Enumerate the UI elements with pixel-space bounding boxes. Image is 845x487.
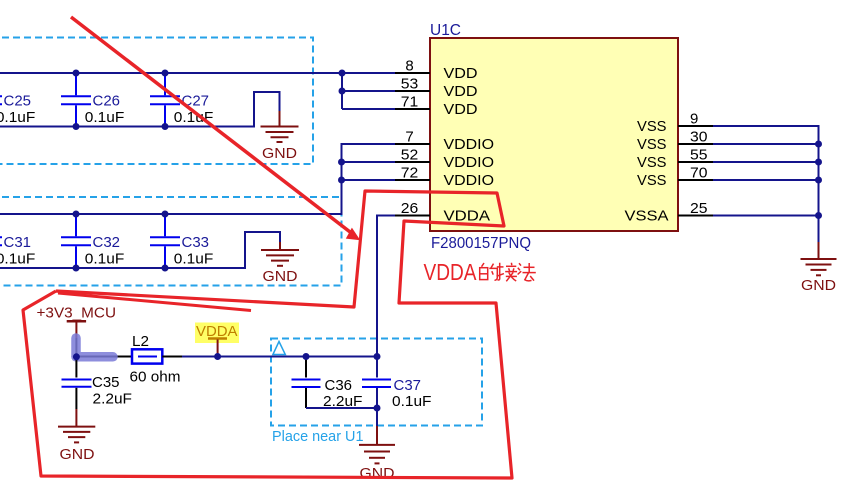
red annotation stray stroke — [58, 293, 251, 311]
svg-text:71: 71 — [401, 94, 419, 111]
wire VDDIO bank top rail — [0, 144, 395, 214]
triangle marker — [273, 342, 285, 355]
wire C36 bottom to C37 — [306, 407, 377, 409]
svg-text:30: 30 — [690, 129, 708, 146]
capacitor C36 — [305, 357, 307, 378]
ground GND right — [801, 242, 837, 275]
ground GND under C35 — [58, 409, 95, 442]
inductor L2 — [132, 349, 162, 363]
svg-text:52: 52 — [401, 147, 419, 164]
pin 71 VDD stub — [395, 108, 430, 110]
svg-text:VDD: VDD — [444, 83, 478, 100]
svg-text:9: 9 — [690, 111, 698, 128]
svg-text:GND: GND — [60, 446, 95, 463]
svg-text:0.1uF: 0.1uF — [174, 251, 214, 268]
svg-text:VDDA: VDDA — [424, 259, 478, 285]
svg-text:0.1uF: 0.1uF — [0, 251, 35, 268]
highlight on +3V3 wire corner — [76, 338, 113, 357]
capacitor C27 — [150, 73, 180, 127]
pin 53 VDD stub — [395, 90, 430, 92]
svg-text:25: 25 — [690, 200, 708, 217]
svg-text:C25: C25 — [4, 93, 32, 110]
pin 26 VDDA stub — [395, 215, 430, 217]
wire VDDA pin 26 — [377, 216, 395, 357]
svg-text:GND: GND — [262, 145, 297, 162]
wire VDD pin 71 — [342, 108, 395, 110]
wire VDDIO bank bottom rail — [0, 232, 280, 268]
svg-text:72: 72 — [401, 165, 419, 182]
dashed box Place near U1 — [271, 339, 482, 426]
svg-text:VDDIO: VDDIO — [444, 154, 495, 171]
capacitor C25 — [0, 73, 2, 127]
pin 8 VDD stub — [395, 72, 430, 74]
svg-text:VSS: VSS — [637, 118, 667, 135]
wire +3V3 corner to L2 — [76, 338, 132, 357]
wire VSS pin 30 — [713, 143, 819, 145]
pin 30 VSS stub — [678, 143, 713, 145]
power stub +3V3_MCU — [75, 321, 77, 338]
wire VSS pin 70 — [713, 179, 819, 181]
svg-text:2.2uF: 2.2uF — [93, 391, 133, 408]
svg-text:VDDIO: VDDIO — [444, 136, 495, 153]
pin 70 VSS stub — [678, 179, 713, 181]
pin 52 VDDIO stub — [395, 161, 430, 163]
wire VDDIO pin 72 — [342, 179, 396, 181]
dashed box around VDDIO decoupling caps — [0, 197, 342, 286]
capacitor C26 — [61, 73, 91, 127]
svg-text:U1C: U1C — [430, 22, 461, 39]
wire VDDIO pin 52 — [342, 161, 396, 163]
svg-text:53: 53 — [401, 76, 419, 93]
svg-text:+3V3_MCU: +3V3_MCU — [37, 305, 117, 322]
svg-text:Place near U1: Place near U1 — [272, 428, 364, 445]
red note Chinese char de — [480, 263, 498, 280]
red annotation polygon — [23, 191, 512, 478]
wire VDD bank top rail — [0, 72, 395, 74]
svg-text:VDD: VDD — [444, 65, 478, 82]
svg-text:C35: C35 — [92, 374, 120, 391]
power bar +3V3_MCU — [67, 320, 86, 323]
svg-text:VSS: VSS — [637, 136, 667, 153]
junction dots bottom circuit — [73, 353, 381, 412]
ground GND under C37 — [359, 426, 395, 463]
red annotation arrow — [71, 17, 352, 234]
capacitor C37 — [376, 357, 378, 378]
power bar VDDA — [208, 337, 227, 340]
svg-text:C32: C32 — [93, 234, 121, 251]
wire VSSA pin 25 — [713, 215, 819, 217]
svg-text:F2800157PNQ: F2800157PNQ — [431, 235, 531, 252]
svg-text:GND: GND — [360, 465, 395, 482]
ground GND2 — [261, 242, 299, 266]
svg-text:L2: L2 — [132, 333, 149, 350]
wire C37 to ground — [376, 408, 378, 426]
net label VDDA highlight — [195, 323, 239, 344]
svg-text:7: 7 — [405, 129, 413, 146]
wire L2 to node (black segment) — [162, 356, 182, 358]
wire VDD pin 53 — [342, 90, 395, 92]
svg-text:70: 70 — [690, 165, 708, 182]
pin 7 VDDIO stub — [395, 143, 430, 145]
capacitor C35 — [75, 357, 77, 378]
junction dots VDDIO bank — [73, 159, 346, 272]
svg-text:C31: C31 — [4, 234, 32, 251]
svg-text:60 ohm: 60 ohm — [130, 369, 181, 386]
pin 55 VSS stub — [678, 161, 713, 163]
svg-text:0.1uF: 0.1uF — [85, 251, 125, 268]
svg-text:VSS: VSS — [637, 172, 667, 189]
svg-text:C37: C37 — [394, 377, 422, 394]
svg-text:GND: GND — [801, 277, 836, 294]
svg-text:C26: C26 — [93, 93, 121, 110]
power stub VDDA — [217, 340, 219, 355]
ground GND1 — [261, 111, 299, 142]
svg-text:26: 26 — [401, 200, 419, 217]
pin 72 VDDIO stub — [395, 179, 430, 181]
svg-text:VSS: VSS — [637, 154, 667, 171]
red note Chinese char fa — [518, 263, 536, 281]
svg-text:0.1uF: 0.1uF — [392, 393, 432, 410]
wire VDD bank bottom rail — [0, 92, 280, 127]
svg-text:55: 55 — [690, 147, 708, 164]
svg-text:0.1uF: 0.1uF — [0, 109, 35, 126]
svg-text:8: 8 — [405, 58, 413, 75]
svg-text:C36: C36 — [325, 377, 353, 394]
wire VDDA net horizontal — [182, 356, 377, 358]
op-amp U1C IC body — [430, 38, 678, 231]
svg-text:VSSA: VSSA — [625, 208, 669, 225]
capacitor C33 — [150, 214, 180, 268]
junction dots VDD bank — [73, 70, 346, 131]
junction dots VSS bus — [815, 141, 822, 220]
pin 25 VSSA stub — [678, 215, 713, 217]
dashed box around VDD decoupling caps — [0, 38, 313, 165]
svg-text:VDD: VDD — [444, 101, 478, 118]
pin 9 VSS stub — [678, 125, 713, 127]
red note Chinese char jie — [497, 263, 518, 282]
svg-text:0.1uF: 0.1uF — [85, 109, 125, 126]
wire VSS pin 55 — [713, 161, 819, 163]
svg-text:GND: GND — [263, 268, 298, 285]
svg-text:C33: C33 — [182, 234, 210, 251]
svg-text:VDDIO: VDDIO — [444, 172, 495, 189]
capacitor C31 — [0, 214, 2, 268]
wire VDD vertical bus — [341, 73, 343, 109]
wire VSS pin 9 to bus — [713, 126, 819, 242]
capacitor C32 — [61, 214, 91, 268]
